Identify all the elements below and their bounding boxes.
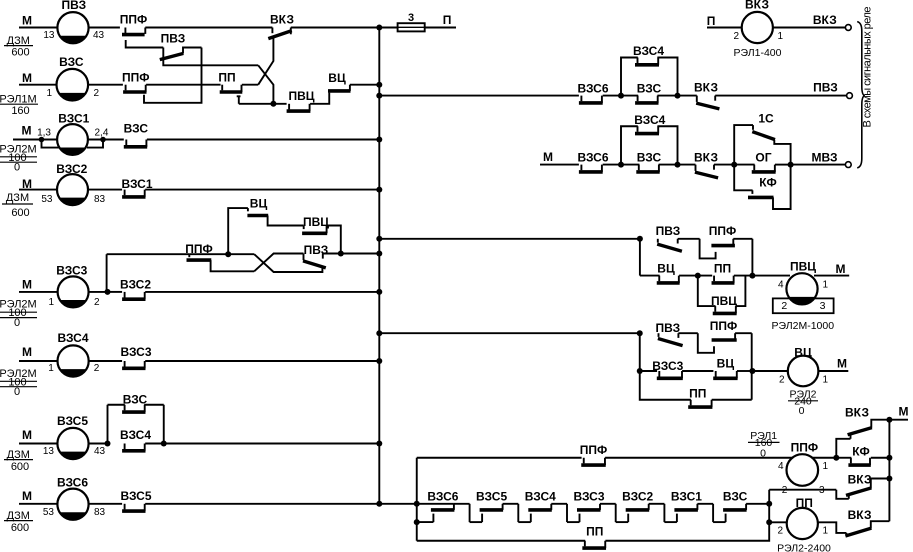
svg-text:2: 2 xyxy=(94,363,100,374)
svg-text:МВЗ: МВЗ xyxy=(811,150,837,164)
svg-text:РЭЛ1-400: РЭЛ1-400 xyxy=(734,47,782,59)
wire row5 junction to VZS2 xyxy=(108,291,123,293)
wire VZS3 to VC contact xyxy=(682,370,713,372)
svg-text:600: 600 xyxy=(11,47,29,59)
wire row8 to bus xyxy=(145,503,379,505)
wire KF to right vertical xyxy=(871,457,890,459)
junction row7 branch right xyxy=(161,441,167,447)
svg-text:ВЗС: ВЗС xyxy=(637,150,662,164)
svg-text:КФ: КФ xyxy=(852,444,869,458)
wire row4 coil to VZS1 contact xyxy=(88,189,122,191)
svg-text:600: 600 xyxy=(11,461,29,473)
svg-text:ПП: ПП xyxy=(714,262,731,276)
svg-text:В схемы сигнальных реле: В схемы сигнальных реле xyxy=(862,7,874,128)
wire row5 coil to junction xyxy=(89,291,108,293)
svg-text:ПВЗ: ПВЗ xyxy=(61,0,86,12)
wire row5-PPF riser xyxy=(106,254,108,292)
wire VKZ coil to terminal xyxy=(773,27,845,29)
wire VC coil to M xyxy=(818,370,848,372)
svg-text:83: 83 xyxy=(94,194,106,205)
svg-text:М: М xyxy=(22,278,32,292)
wire PVZ to PPF dip PVC-group xyxy=(678,238,700,240)
svg-text:2,4: 2,4 xyxy=(95,128,109,139)
svg-text:ПВЗ: ПВЗ xyxy=(304,243,329,257)
wire box top side left xyxy=(417,457,582,459)
svg-text:ПВЗ: ПВЗ xyxy=(655,321,680,335)
wire row8 coil to VZS5 contact xyxy=(89,503,123,505)
wire row1 VKZ to bus xyxy=(291,27,380,29)
svg-text:1,3: 1,3 xyxy=(37,128,51,139)
wire row7 branch right riser xyxy=(163,405,165,444)
relay coil PVZ (ПВЗ) pins 13/43 xyxy=(57,12,88,43)
wire X feeder upper xyxy=(163,48,258,66)
svg-text:ВКЗ: ВКЗ xyxy=(694,150,718,164)
svg-text:1: 1 xyxy=(823,375,829,386)
svg-text:2: 2 xyxy=(779,375,785,386)
svg-text:ВКЗ: ВКЗ xyxy=(270,13,294,27)
svg-text:1: 1 xyxy=(823,279,829,290)
wire fuse to P terminal xyxy=(425,27,457,29)
svg-text:ВЗС: ВЗС xyxy=(123,393,148,407)
wire PPF-row1 branch down xyxy=(126,40,164,48)
svg-text:ВКЗ: ВКЗ xyxy=(813,13,837,27)
wire middle X diag B xyxy=(254,254,303,272)
svg-text:ВЗС4: ВЗС4 xyxy=(634,113,665,127)
wire VKZ to PVZ terminal xyxy=(715,95,846,97)
svg-text:600: 600 xyxy=(11,207,29,219)
wire middle main over PPF to X xyxy=(189,253,254,255)
wire VC group to coil xyxy=(752,370,788,372)
junction X-PVC node xyxy=(270,101,276,107)
wire VC contact to right xyxy=(737,370,753,372)
wire middle main left xyxy=(107,253,190,255)
svg-text:ПВЗ: ПВЗ xyxy=(656,224,681,238)
junction right-vert top xyxy=(886,417,892,423)
svg-text:ППФ: ППФ xyxy=(710,319,738,333)
svg-text:ПВЦ: ПВЦ xyxy=(303,215,329,229)
wire VC branch middle xyxy=(228,208,248,254)
wire row2 PP to X xyxy=(242,84,258,86)
wire VZS6 to parallel left xyxy=(603,95,621,97)
wire box top side right xyxy=(605,457,836,459)
junction row8-bus xyxy=(376,501,382,507)
svg-text:43: 43 xyxy=(93,30,105,41)
svg-text:ПВЦ: ПВЦ xyxy=(790,260,816,274)
svg-text:ВЦ: ВЦ xyxy=(657,262,675,276)
relay coil VZS (ВЗС) pins 1/2 xyxy=(57,69,89,101)
svg-text:2: 2 xyxy=(733,31,739,42)
junction middle-dot xyxy=(338,251,344,257)
junction VC group left top xyxy=(637,330,643,336)
wire row2.5 left segment xyxy=(239,103,287,105)
wire right vertical xyxy=(888,420,890,522)
svg-text:КФ: КФ xyxy=(759,176,776,190)
wire parallel branch VZS4 PVZ row xyxy=(621,58,638,96)
svg-text:ВЗС3: ВЗС3 xyxy=(56,263,87,277)
svg-text:2: 2 xyxy=(777,526,783,537)
svg-text:П: П xyxy=(443,13,452,27)
svg-text:ВЗС6: ВЗС6 xyxy=(57,476,88,490)
svg-text:ВЗС6: ВЗС6 xyxy=(577,82,608,96)
wire M top right xyxy=(889,419,908,421)
svg-text:ПВЗ: ПВЗ xyxy=(813,80,838,94)
svg-text:1: 1 xyxy=(823,461,829,472)
svg-text:ВЗС5: ВЗС5 xyxy=(476,490,507,504)
wire M feed MVZ row xyxy=(540,164,579,166)
svg-text:ВЗС5: ВЗС5 xyxy=(57,414,88,428)
svg-text:РЭЛ2М-1000: РЭЛ2М-1000 xyxy=(772,320,835,332)
svg-text:М: М xyxy=(899,405,909,419)
svg-text:ВЗС: ВЗС xyxy=(59,55,84,69)
wire row4 to bus xyxy=(145,189,379,191)
wire row2 M feed xyxy=(19,84,57,86)
terminal VKZ xyxy=(845,25,851,31)
svg-text:ВЗС1: ВЗС1 xyxy=(671,490,702,504)
wire VC mid branch left xyxy=(640,370,657,372)
svg-text:ВЗС3: ВЗС3 xyxy=(573,490,604,504)
svg-text:ВЦ: ВЦ xyxy=(250,197,268,211)
svg-text:1: 1 xyxy=(46,88,52,99)
svg-text:ВЦ: ВЦ xyxy=(794,345,812,359)
junction VC group left mid xyxy=(637,368,643,374)
wire PPF to right riser VC-group xyxy=(735,332,752,334)
wire middle X diag A xyxy=(254,254,322,272)
terminal box pins 2-3 PVC xyxy=(773,298,834,313)
wire bus to PVC group xyxy=(379,238,640,240)
wire VZS6 to parallel left MVZ xyxy=(603,164,621,166)
wire row1 PPF to VKZ xyxy=(145,27,272,29)
wire PVC subbranch xyxy=(698,276,716,307)
svg-text:ВЗС4: ВЗС4 xyxy=(57,331,88,345)
junction chain-right xyxy=(766,501,772,507)
relay coil VC (ВЦ) pins 2/1 xyxy=(788,356,819,387)
svg-text:ПП: ПП xyxy=(218,71,235,85)
junction row5 PPF branch xyxy=(105,289,111,295)
svg-text:ПП: ПП xyxy=(586,524,603,538)
svg-text:83: 83 xyxy=(94,507,106,518)
wire PVC coil to M xyxy=(814,275,849,277)
relay coil VZS3 (ВЗС3) pins 1/2 xyxy=(58,276,89,307)
junction parallel right MVZ xyxy=(675,162,681,168)
svg-text:ПВЦ: ПВЦ xyxy=(288,89,314,103)
junction PVC group left xyxy=(637,236,643,242)
svg-text:ВЗС4: ВЗС4 xyxy=(120,428,151,442)
junction PP pin2 node xyxy=(766,519,772,525)
fuse 3 row1 xyxy=(398,26,425,28)
svg-text:ВЗС4: ВЗС4 xyxy=(525,490,556,504)
svg-text:3: 3 xyxy=(820,300,826,312)
junction parallel left PVZ row xyxy=(618,93,624,99)
wire parallel branch VZS4 MVZ xyxy=(621,126,638,164)
junction VC-branch root xyxy=(225,251,231,257)
junction PVCfeed-bus xyxy=(376,236,382,242)
junction parallel left MVZ xyxy=(618,162,624,168)
terminal MVZ xyxy=(845,162,851,168)
junction right-vert KF xyxy=(886,455,892,461)
svg-text:М: М xyxy=(22,489,32,503)
svg-text:ВЗС2: ВЗС2 xyxy=(622,490,653,504)
relay coil PPF (ППФ) pins 4/1/2/3 xyxy=(787,454,819,486)
wire box bottom side xyxy=(417,540,585,542)
wire row7 to bus xyxy=(145,443,379,445)
wire PPF to right riser PVC-group xyxy=(733,238,752,240)
junction box left lower xyxy=(414,519,420,525)
svg-text:ВЗС: ВЗС xyxy=(124,122,149,136)
svg-text:ВЗС3: ВЗС3 xyxy=(652,359,683,373)
wire row5 M feed xyxy=(19,291,58,293)
svg-text:ПП: ПП xyxy=(796,496,813,510)
svg-text:2: 2 xyxy=(94,297,100,308)
wire block to MVZ terminal xyxy=(791,164,846,166)
wire row5 to bus xyxy=(145,291,379,293)
wire row2 coil to PPF xyxy=(88,84,123,86)
wire row7 M feed xyxy=(19,443,58,445)
svg-text:0: 0 xyxy=(14,162,20,174)
wire VC to PP PVC-group xyxy=(679,275,712,277)
wire row6 M feed xyxy=(19,360,58,362)
junction middle-bus xyxy=(376,251,382,257)
relay coil VKZ (ВКЗ) pins 2/1 xyxy=(742,12,773,43)
svg-text:0: 0 xyxy=(799,405,805,417)
junction row6-bus xyxy=(376,358,382,364)
svg-text:1С: 1С xyxy=(758,112,774,126)
wire row7 branch left riser xyxy=(107,405,109,444)
wire PP coil feed xyxy=(769,521,787,523)
svg-text:М: М xyxy=(22,71,32,85)
svg-text:160: 160 xyxy=(11,105,29,117)
wire box bottom side right xyxy=(605,490,769,541)
svg-text:ВЗС6: ВЗС6 xyxy=(427,490,458,504)
svg-text:ВКЗ: ВКЗ xyxy=(848,508,872,522)
svg-text:ВКЗ: ВКЗ xyxy=(694,80,718,94)
svg-text:РЭЛ2-2400: РЭЛ2-2400 xyxy=(777,543,831,552)
svg-text:3: 3 xyxy=(408,12,414,24)
junction row1-bus xyxy=(376,25,382,31)
wire PVC group left riser xyxy=(639,239,641,276)
svg-text:2: 2 xyxy=(781,300,787,312)
svg-text:ВЗС2: ВЗС2 xyxy=(56,162,87,176)
wire row6 coil to VZS3 contact xyxy=(89,360,122,362)
svg-text:2: 2 xyxy=(94,88,100,99)
wire row7 branch top xyxy=(108,404,125,406)
wire row3 winding loop right xyxy=(87,140,103,148)
svg-text:4: 4 xyxy=(778,279,784,290)
wire VKZ to 1S-OG-KF block xyxy=(714,164,734,166)
svg-text:М: М xyxy=(22,124,32,138)
relay coil VZS4 (ВЗС4) pins 1/2 xyxy=(58,345,89,376)
wire bus to fuse xyxy=(379,27,398,29)
wire bus to VZS6 contact PVZ row xyxy=(379,95,579,97)
wire row4 M feed xyxy=(19,189,58,191)
wire row8 M feed xyxy=(19,503,58,505)
svg-text:13: 13 xyxy=(43,30,55,41)
svg-text:М: М xyxy=(22,345,32,359)
svg-text:600: 600 xyxy=(11,522,29,534)
junction VCfeed-bus xyxy=(376,330,382,336)
svg-text:М: М xyxy=(836,262,846,276)
svg-text:0: 0 xyxy=(14,317,20,329)
svg-text:ВЗС: ВЗС xyxy=(637,82,662,96)
svg-text:13: 13 xyxy=(43,446,55,457)
wire to VKZ contact MVZ xyxy=(678,164,696,166)
junction row4-bus xyxy=(376,187,382,193)
wire VC to bus xyxy=(350,84,379,86)
svg-text:ВЦ: ВЦ xyxy=(717,357,735,371)
junction box left upper xyxy=(414,501,420,507)
junction right-vert mid xyxy=(886,476,892,482)
relay coil VZS2 (ВЗС2) pins 53/83 xyxy=(57,174,88,205)
junction row7 branch left xyxy=(105,441,111,447)
svg-text:М: М xyxy=(22,428,32,442)
junction row5-bus xyxy=(376,289,382,295)
wire main vertical bus xyxy=(378,28,380,504)
svg-text:М: М xyxy=(22,13,32,27)
wire PPF pins23 xyxy=(769,489,836,491)
wire box left vertical xyxy=(416,458,418,541)
wire PVZ to PPF dip VC-group xyxy=(678,332,697,334)
svg-text:ППФ: ППФ xyxy=(791,441,819,455)
junction parallel right PVZ row xyxy=(675,93,681,99)
junction block left MVZ xyxy=(731,162,737,168)
brace signal relays xyxy=(857,22,865,168)
wire X diag down xyxy=(258,65,273,104)
svg-text:ОГ: ОГ xyxy=(755,150,771,164)
wire KF branch down-left xyxy=(734,165,752,191)
svg-text:ППФ: ППФ xyxy=(709,224,737,238)
wire row3 winding loop left xyxy=(42,140,59,148)
svg-text:ВЗС6: ВЗС6 xyxy=(577,150,608,164)
wire chain exit to right riser xyxy=(746,503,769,505)
wire row1 coil to PPF contact xyxy=(89,27,120,29)
svg-text:1: 1 xyxy=(48,363,54,374)
junction row3-bus xyxy=(376,137,382,143)
wire row3 coil to VZS contact xyxy=(88,139,124,141)
svg-text:ВЗС2: ВЗС2 xyxy=(120,278,151,292)
svg-text:ДЗМ: ДЗМ xyxy=(6,192,29,204)
svg-text:ВКЗ: ВКЗ xyxy=(845,405,869,419)
svg-text:ВЗС3: ВЗС3 xyxy=(120,345,151,359)
svg-text:ВЦ: ВЦ xyxy=(328,71,346,85)
wire PVC group to coil xyxy=(752,275,790,277)
relay coil VZS1 (ВЗС1) pins 1,3/2,4 xyxy=(57,124,88,155)
svg-text:53: 53 xyxy=(41,194,53,205)
wire X diag up to VKZ xyxy=(258,37,273,84)
wire VC group left riser xyxy=(640,333,691,400)
wire row6 to bus xyxy=(145,360,379,362)
wire row3 M feed xyxy=(13,139,58,141)
wire row1 M feed xyxy=(19,27,58,29)
wire row3 to bus xyxy=(147,139,379,141)
wire row2 PPF to PP xyxy=(146,84,221,86)
svg-text:М: М xyxy=(22,177,32,191)
wire P to VKZ coil xyxy=(707,27,742,29)
wire PVC subbranch right xyxy=(736,276,745,307)
junction row7-bus xyxy=(376,441,382,447)
wire PVZ middle to bus xyxy=(323,253,380,255)
relay coil VZS5 (ВЗС5) pins 13/43 xyxy=(57,428,88,459)
wire 1S branch up-left xyxy=(734,125,753,165)
svg-text:43: 43 xyxy=(94,446,106,457)
svg-text:ППФ: ППФ xyxy=(122,71,150,85)
svg-text:ВЗС1: ВЗС1 xyxy=(58,112,89,126)
wire PVZ branch vertical to lower loop xyxy=(144,48,202,103)
terminal PVZ xyxy=(847,93,853,99)
relay coil PVC (ПВЦ) pins 4/1 xyxy=(786,273,817,304)
svg-text:ПВЗ: ПВЗ xyxy=(161,32,186,46)
svg-text:М: М xyxy=(543,150,553,164)
wire PP to right riser VC-group xyxy=(712,399,752,401)
svg-text:4: 4 xyxy=(778,461,784,472)
wire bus to VC group xyxy=(379,332,639,334)
svg-text:ПП: ПП xyxy=(689,387,706,401)
svg-text:ВКЗ: ВКЗ xyxy=(848,473,872,487)
svg-text:1: 1 xyxy=(48,297,54,308)
svg-text:1: 1 xyxy=(823,526,829,537)
junction PPFcoil right xyxy=(833,455,839,461)
svg-text:ППФ: ППФ xyxy=(580,443,608,457)
junction PVC group right xyxy=(749,273,755,279)
contact chain VZS6..VZS (ВЗС6 ВЗС5 ВЗС4 ВЗС3 ВЗС2 ВЗС1 ВЗС) xyxy=(417,503,454,505)
svg-text:0: 0 xyxy=(14,386,20,398)
svg-text:1: 1 xyxy=(778,31,784,42)
junction VC group right xyxy=(749,368,755,374)
svg-text:ВЗС4: ВЗС4 xyxy=(633,44,664,58)
svg-text:ПВЦ: ПВЦ xyxy=(711,294,737,308)
svg-text:53: 53 xyxy=(43,507,55,518)
junction block right MVZ xyxy=(788,162,794,168)
svg-text:ВЗС: ВЗС xyxy=(723,490,748,504)
svg-text:П: П xyxy=(707,14,716,28)
wire PP to right PVC-group xyxy=(734,275,753,277)
junction row2-bus xyxy=(376,82,382,88)
wire row8 bus to box xyxy=(379,503,416,505)
junction PVC subbranch xyxy=(695,273,701,279)
wire PVC middle to dot xyxy=(327,226,341,254)
wire to VKZ contact PVZ row xyxy=(678,95,697,97)
svg-text:М: М xyxy=(837,357,847,371)
junction PVZrow-bus xyxy=(376,93,382,99)
wire row7 coil to junction xyxy=(89,443,108,445)
svg-text:ППФ: ППФ xyxy=(120,13,148,27)
relay coil PP (ПП) pins 2/1 xyxy=(787,508,818,539)
wire row2.5 left corner tick xyxy=(237,95,241,97)
svg-text:ВКЗ: ВКЗ xyxy=(745,0,769,12)
relay coil VZS6 (ВЗС6) pins 53/83 xyxy=(57,489,88,520)
wire PVC to VC riser xyxy=(310,93,329,104)
svg-text:ВЗС5: ВЗС5 xyxy=(120,489,151,503)
svg-text:0: 0 xyxy=(760,448,766,460)
